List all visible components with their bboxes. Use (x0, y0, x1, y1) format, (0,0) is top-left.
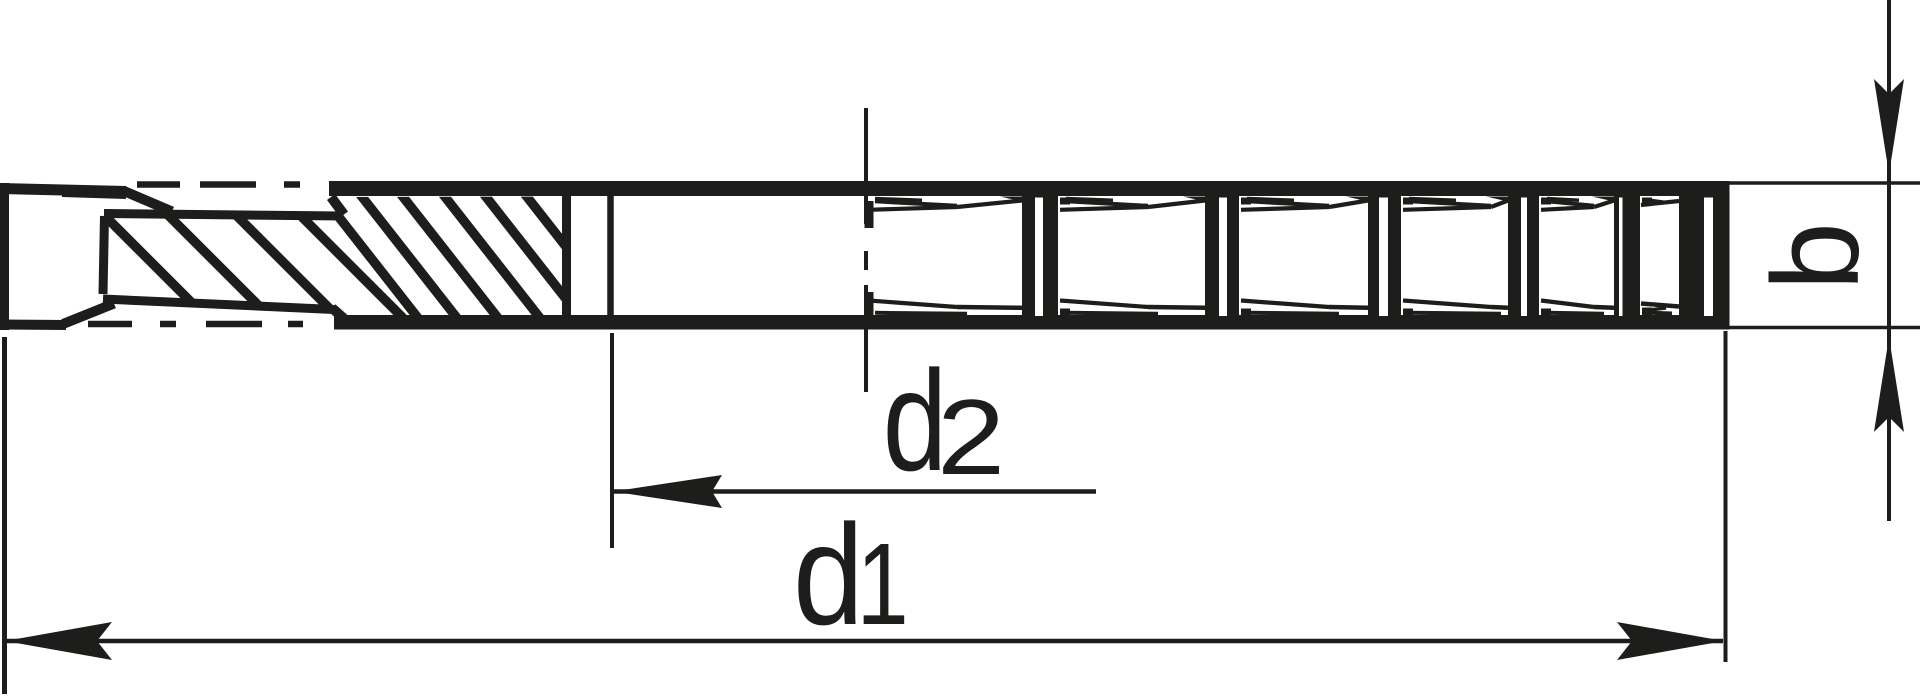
svg-text:b: b (1748, 222, 1885, 290)
svg-text:d: d (793, 494, 864, 655)
svg-text:1: 1 (857, 520, 909, 650)
svg-text:2: 2 (937, 378, 1005, 497)
